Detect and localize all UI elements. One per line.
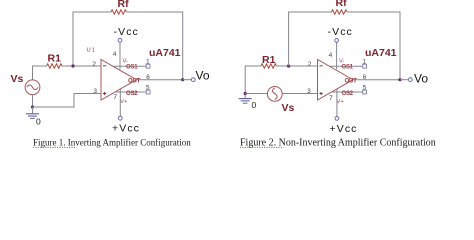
svg-text:0: 0 <box>252 100 257 110</box>
svg-text:V+: V+ <box>337 99 345 105</box>
svg-text:Vs: Vs <box>282 102 295 114</box>
wire: feedback right vertical down to output node <box>182 12 184 80</box>
resistor Rf <box>111 10 126 14</box>
resistor R1 (figure 2) <box>261 64 276 68</box>
junction: Vs/ground node <box>31 105 34 108</box>
svg-text:Vs: Vs <box>11 73 24 85</box>
wire: OUT to output node <box>137 79 184 81</box>
svg-text:OUT: OUT <box>345 78 358 84</box>
svg-text:OUT: OUT <box>128 78 141 84</box>
wire: output node to Vo terminal <box>183 79 192 81</box>
svg-text:R1: R1 <box>48 53 62 65</box>
plus input mark (figure 2) <box>320 92 323 95</box>
wire: input wire from Vs to R1 <box>32 65 47 67</box>
minus input mark (figure 2) <box>320 65 323 67</box>
wire: left vertical from R1 down to ground node <box>244 66 246 94</box>
voltage source Vs (figure 2) <box>267 87 282 102</box>
+Vcc terminal circle (figure 2) <box>335 117 339 121</box>
svg-text:OS2: OS2 <box>126 91 138 97</box>
svg-text:Rf: Rf <box>118 0 130 10</box>
voltage source Vs <box>25 80 40 95</box>
svg-text:R1: R1 <box>262 54 276 66</box>
wire: R1 to op-amp pin 2 <box>62 65 101 67</box>
svg-text:OS1: OS1 <box>342 64 354 70</box>
resistor Rf (figure 2) <box>332 10 347 14</box>
svg-text:0: 0 <box>36 117 41 127</box>
svg-text:Vo: Vo <box>414 71 428 85</box>
pin 1 OS1 stub and square <box>114 64 151 68</box>
svg-text:uA741: uA741 <box>365 47 397 59</box>
svg-text:3: 3 <box>93 88 97 95</box>
svg-text:U1: U1 <box>87 48 96 54</box>
wire: top rail right segment (figure 2) <box>347 11 401 13</box>
wire: Vs to op-amp pin 3 (figure 2) <box>282 93 318 95</box>
pin 4 power stub to -Vcc (figure 2) <box>336 42 338 69</box>
pin 7 power stub to +Vcc (figure 2) <box>336 89 338 117</box>
wire: feedback right vertical down to output node (figure 2) <box>399 12 401 80</box>
svg-text:-Vcc: -Vcc <box>328 26 353 38</box>
pin 5 OS2 stub and square (figure 2) <box>331 90 366 94</box>
op-amp triangle (figure 2) <box>318 60 354 101</box>
svg-text:2: 2 <box>308 61 312 68</box>
wire: feedback left vertical (node between R1 and pin 2 up to top rail) <box>72 12 74 66</box>
minus input mark <box>103 65 106 67</box>
caption figure 2 underline <box>240 146 284 148</box>
svg-text:Figure 1. Inverting Amplifier: Figure 1. Inverting Amplifier Configurat… <box>33 138 191 148</box>
op-amp U1 triangle <box>101 60 137 101</box>
ground (0) figure 1 <box>26 107 39 118</box>
wire: feedback left vertical (figure 2) <box>288 12 290 66</box>
wire: top rail right segment from Rf <box>126 11 183 13</box>
svg-text:-Vcc: -Vcc <box>114 26 139 38</box>
wire: R1 to op-amp pin 2 (figure 2) <box>276 65 317 67</box>
svg-text:7: 7 <box>113 94 117 101</box>
resistor R1 <box>47 64 62 68</box>
Vo terminal circle <box>191 78 195 82</box>
pin 5 OS2 stub and square <box>115 90 150 94</box>
-Vcc terminal circle (figure 2) <box>335 39 339 43</box>
svg-text:1: 1 <box>363 59 367 66</box>
svg-text:7: 7 <box>329 95 333 102</box>
wire: OUT to output node (figure 2) <box>353 79 400 81</box>
svg-text:+Vcc: +Vcc <box>112 123 140 135</box>
junction: output/feedback node <box>181 78 184 81</box>
svg-text:Figure 2. Non-Inverting Amplif: Figure 2. Non-Inverting Amplifier Config… <box>240 138 436 149</box>
junction: feedback/R1/pin2 node <box>71 64 74 67</box>
wire: output node to Vo terminal (figure 2) <box>400 79 408 81</box>
wire: ground node right, step up to pin 3 <box>33 94 102 108</box>
junction: output/feedback node (figure 2) <box>398 78 401 81</box>
svg-text:2: 2 <box>92 61 96 68</box>
svg-text:6: 6 <box>146 74 150 81</box>
-Vcc terminal circle <box>118 38 122 42</box>
svg-text:Rf: Rf <box>336 0 348 9</box>
junction: feedback/R1/pin2 node (figure 2) <box>287 64 290 67</box>
svg-text:V+: V+ <box>120 99 128 105</box>
wire: R1 left lead <box>245 65 261 67</box>
svg-text:Vo: Vo <box>196 69 210 83</box>
caption figure 1 underline <box>33 146 77 148</box>
wire: ground node to Vs left terminal <box>245 93 268 95</box>
svg-text:OS1: OS1 <box>126 64 138 70</box>
Vo terminal circle (figure 2) <box>408 78 412 82</box>
wire: top rail left segment to Rf <box>73 11 112 13</box>
junction: R1/ground/Vs node (figure 2) <box>244 92 247 95</box>
wire: Vs bottom to ground node <box>32 94 34 107</box>
wire: top rail left segment to Rf (figure 2) <box>288 11 331 13</box>
svg-text:3: 3 <box>307 88 311 95</box>
svg-text:4: 4 <box>113 51 117 58</box>
svg-text:4: 4 <box>329 52 333 59</box>
svg-text:uA741: uA741 <box>149 47 181 59</box>
svg-text:5: 5 <box>146 84 150 91</box>
pin 7 power stub to +Vcc <box>119 89 121 116</box>
pin 1 OS1 stub and square (figure 2) <box>330 64 367 68</box>
ground (0) figure 2 <box>239 94 252 104</box>
svg-text:+Vcc: +Vcc <box>330 123 358 135</box>
svg-text:OS2: OS2 <box>342 91 354 97</box>
+Vcc terminal circle <box>118 116 122 120</box>
pin 4 power stub to -Vcc <box>119 42 121 69</box>
svg-text:5: 5 <box>363 84 367 91</box>
plus input mark <box>103 92 106 95</box>
svg-text:1: 1 <box>146 59 150 66</box>
wire: Vs top to input wire <box>32 66 34 81</box>
svg-text:6: 6 <box>363 74 367 81</box>
